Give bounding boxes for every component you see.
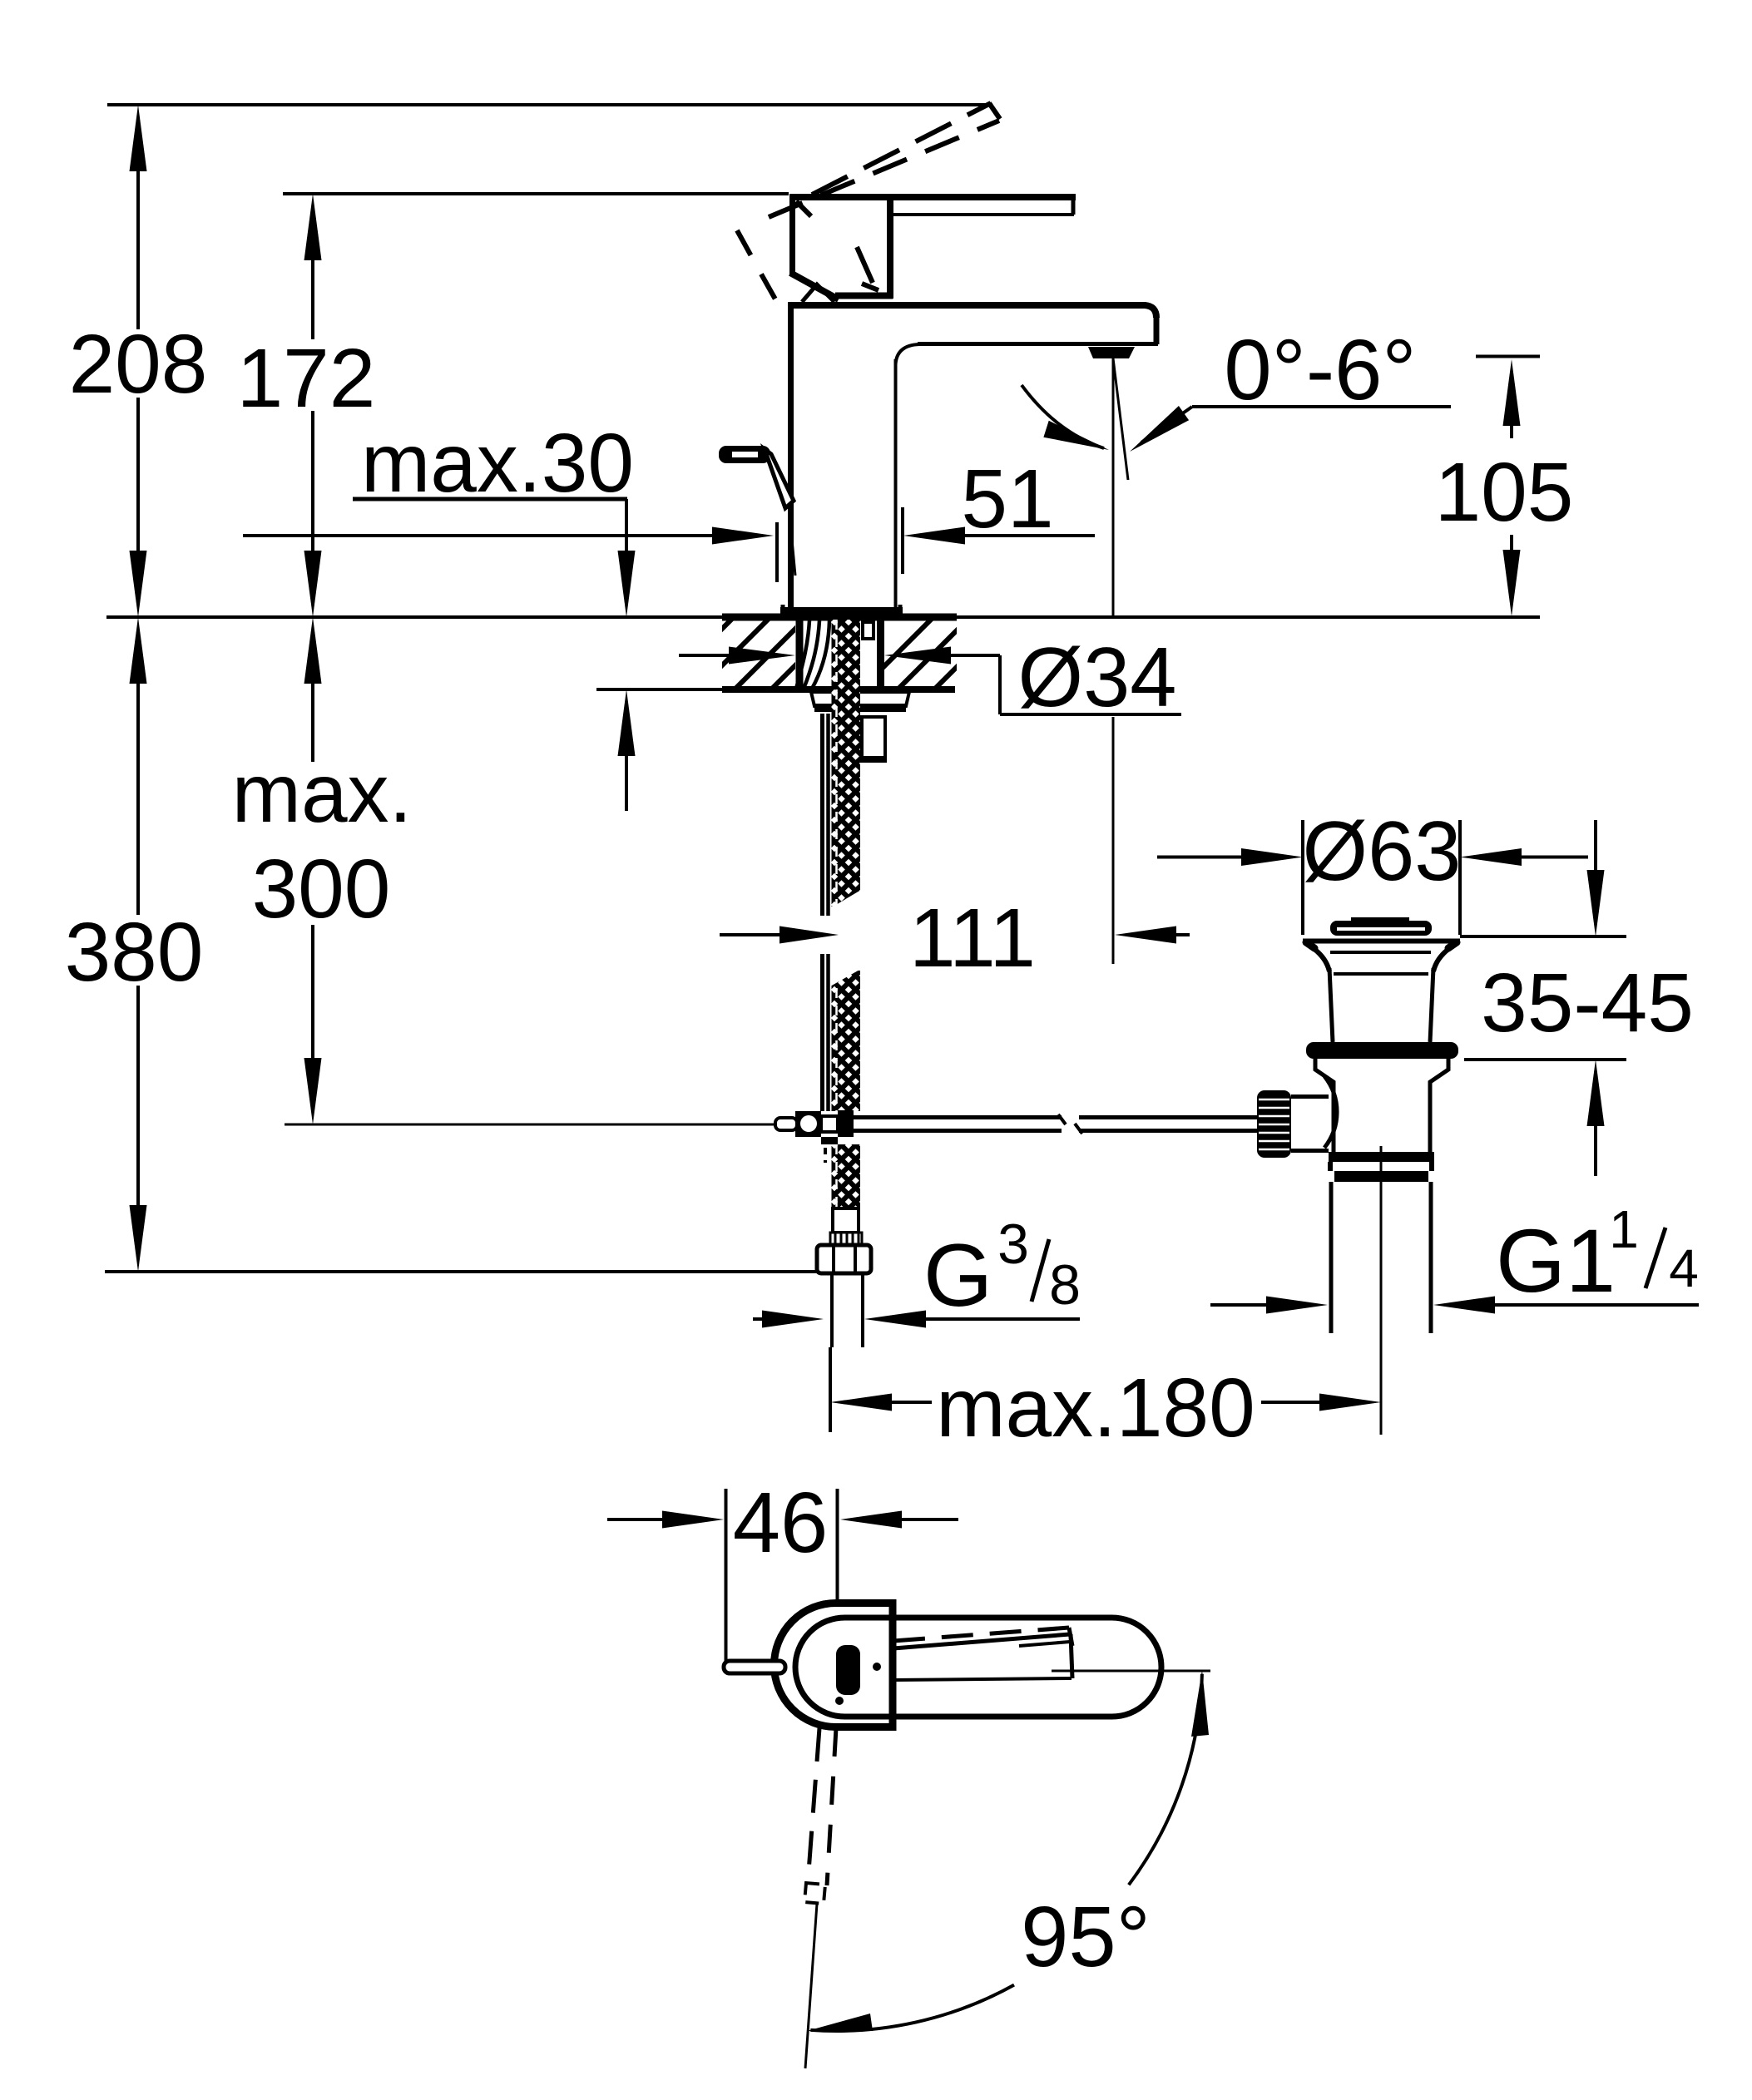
rod break marks [1058,1114,1066,1124]
knurled adjuster knob [1257,1090,1291,1158]
handle block bevel [790,273,839,299]
pull rod stem [765,449,794,508]
pop-up plug cap [1351,917,1409,922]
dimension 208 vertical line with arrows [130,105,147,617]
junction clamp block left [795,1111,821,1137]
pull rod tube left wall [820,714,824,916]
coupling lower band [1334,1171,1428,1182]
dimension 51 [243,534,712,537]
drain neck inner lines [1330,951,1431,954]
top view lever bar solid outline [893,1634,1070,1648]
horizontal pull rod to drain (left segment) [854,1115,1062,1119]
svg-text:3: 3 [997,1213,1029,1276]
dimension Ø34 [679,654,729,657]
svg-text:Ø63: Ø63 [1303,805,1462,898]
hose thread section [830,1233,862,1245]
handle block right edge [887,194,893,299]
top view base right edge [889,1599,897,1731]
pull rod tube right wall [826,714,830,916]
svg-text:380: 380 [65,906,204,999]
svg-text:111: 111 [909,892,1036,985]
hose tail (G3/8 connector) [830,1273,834,1347]
handle block top edge + lever top edge [789,194,1076,200]
deck hatching left zone [661,617,844,689]
junction lower tab [821,1137,838,1144]
aerator [1088,347,1135,358]
knob connector housing [1291,1094,1329,1099]
pull rod tip stub [724,1661,785,1673]
hose connector below [833,1208,859,1233]
G3/8 hex nut [817,1245,871,1273]
cartridge hole [836,1645,860,1695]
top view lever capsule [795,1618,1161,1717]
svg-text:G: G [923,1225,992,1325]
drain body bottom rim [1329,1152,1434,1162]
water stream vertical reference [1112,358,1115,615]
tailpipe right edge [1429,1182,1433,1333]
svg-text:51: 51 [961,452,1053,546]
dashed raised lever rear outline [737,230,778,304]
handle block left edge [789,194,795,274]
spout inner corner [896,344,920,364]
svg-text:4: 4 [1669,1238,1699,1298]
deck thickness arrow below deck [618,689,636,756]
svg-text:max.: max. [232,747,413,840]
drain center line [1380,1146,1383,1435]
dashed raised lever end cap [989,103,1000,119]
spout right corner [1145,305,1156,318]
ball joint arc [1324,1076,1337,1148]
tailpipe left edge [1329,1182,1334,1333]
lever end reference line [805,1904,817,2068]
handle block bottom edge [835,293,893,299]
screw dot 1 [873,1663,881,1671]
dimension 35-45 [1460,935,1626,938]
dashed raised lever lower edge [769,121,999,217]
arc arrowhead bottom [807,2014,873,2031]
lever bar bottom edge [893,213,1074,216]
svg-text:1: 1 [1609,1199,1639,1259]
dimension G3/8 [753,1317,762,1321]
svg-text:300: 300 [252,842,391,936]
drain body shoulder right [1430,1059,1448,1152]
drain neck right [1430,968,1433,1042]
pop-up pull rod knob [719,446,770,463]
dashed lever end cap [804,1883,825,1904]
deck hatching right zone [861,617,1007,689]
top view lever bar dashed (raised) [893,1628,1069,1641]
screw dot 2 [835,1697,844,1705]
stream reference line below deck [1112,717,1115,964]
svg-text:0°-6°: 0°-6° [1224,322,1416,418]
dashed lever swung 95 degrees [808,1728,819,1883]
svg-text:8: 8 [1049,1253,1081,1317]
spout underside [918,342,1158,346]
braided supply hose upper segment [832,620,861,907]
faucet base flange [780,607,903,617]
svg-text:95°: 95° [1021,1889,1151,1984]
svg-text:105: 105 [1435,446,1574,539]
braided hose lower segment [832,1144,861,1208]
small V mark at block bottom [802,284,834,302]
svg-text:35-45: 35-45 [1481,956,1694,1050]
body inner edge [894,359,898,607]
95 degree arc [1129,1674,1202,1885]
flexible hoses curving in shank [796,620,809,689]
drain neck left [1329,968,1333,1042]
deck bottom line [596,688,955,691]
arc arrowhead top [1191,1670,1209,1737]
svg-text:Ø34: Ø34 [1018,631,1177,724]
drain body shoulder left [1315,1059,1334,1152]
extension line at pull rod level [285,1124,774,1126]
swivel centerline [1052,1670,1210,1673]
svg-text:46: 46 [733,1475,829,1570]
junction clamp block right [838,1110,854,1137]
pull rod junction: left end cap [775,1118,797,1130]
svg-text:max.180: max.180 [936,1361,1255,1455]
dashes inside handle block [796,201,811,216]
drain flange right curve [1433,947,1451,971]
svg-text:208: 208 [69,318,208,411]
deck top surface line [106,615,1540,619]
spout right edge [1154,314,1160,344]
rubber gasket [1306,1042,1458,1059]
top view base plate [775,1603,893,1727]
svg-text:max.30: max.30 [361,417,634,510]
washer below deck [811,692,909,706]
dim line: 172 reference line [283,192,789,195]
body outer left edge [788,302,794,607]
dimension max.300 vertical line with arrows [304,617,322,1124]
drain flange top [1303,939,1460,944]
water stream tilted line [1113,358,1128,480]
dimension 172 vertical line with arrows [304,194,322,617]
dashed raised lever upper edge [812,103,991,195]
junction middle [821,1116,838,1132]
mounting nut below washer [862,717,885,761]
dimension 380 vertical line with arrows [130,617,147,1272]
shank hole left wall [796,617,804,689]
drain flange left curve [1312,947,1329,971]
angle arc 0-6 [1022,385,1104,448]
braided hose middle segment [832,971,861,1111]
rod slot top right in shank [863,622,874,639]
spout top edge (shoulder) [788,302,1146,309]
dim line: top reference line (208 level) [107,103,992,106]
horizontal pull rod to drain (right segment) [1079,1115,1258,1119]
dimension Ø63 [1157,856,1241,859]
svg-text:172: 172 [237,332,376,425]
dimension 105 [1476,355,1540,358]
svg-text:G1: G1 [1496,1210,1616,1311]
dimension max.180 [829,1347,832,1432]
coupling white band [1328,1162,1333,1171]
lever bar end cap [1071,199,1076,215]
dimension 46 [725,1489,728,1667]
dimension 111 [720,933,779,936]
shank hole right wall [877,617,884,689]
dimension G1 1/4 [1210,1303,1266,1307]
bottom reference line (380 bottom) [105,1270,817,1273]
